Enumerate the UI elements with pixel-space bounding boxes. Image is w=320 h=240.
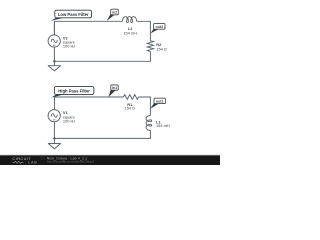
wire rail to right corner and down to L1 [139, 97, 151, 116]
node flag in2 [107, 14, 116, 21]
wire top rail circuit 2 [54, 97, 123, 110]
svg-text:http://circuitlab.com/c2em5e23: http://circuitlab.com/c2em5e23dqo1 [47, 160, 95, 164]
voltage source V1 [48, 110, 60, 122]
svg-text:out1: out1 [156, 100, 164, 104]
wire L1 bottom to rail [54, 131, 150, 139]
resistor R1 [124, 95, 139, 100]
svg-text:in2: in2 [112, 11, 117, 15]
svg-text:Low Pass Filter: Low Pass Filter [58, 12, 89, 17]
label Low Pass Filter [50, 18, 64, 21]
node flag out1 [150, 103, 158, 109]
node flag in1 [109, 89, 116, 97]
logo badge [40, 156, 45, 160]
svg-text:100 Hz: 100 Hz [63, 118, 75, 123]
svg-text:154 Ω: 154 Ω [156, 47, 167, 52]
ground circuit 2 [53, 138, 55, 143]
voltage source V2 [48, 35, 60, 47]
svg-text:in1: in1 [112, 86, 117, 90]
wire left branch circuit 2 [53, 122, 55, 139]
svg-text:High Pass Filter: High Pass Filter [58, 88, 90, 93]
node junction circuit 1 [53, 60, 55, 62]
svg-text:out2: out2 [156, 25, 164, 29]
inductor L2 [123, 17, 137, 23]
wire rail to right corner and down to R2 [137, 21, 151, 40]
wire R2 bottom to rail [54, 52, 150, 62]
wire top rail circuit 1 [54, 21, 122, 35]
node junction circuit 2 [53, 137, 55, 139]
node flag out2 [151, 29, 159, 34]
watermark bar [0, 154, 220, 157]
svg-text:154 mH: 154 mH [156, 123, 170, 128]
svg-text:154 Ω: 154 Ω [125, 105, 136, 110]
svg-text:154 mH: 154 mH [123, 30, 137, 35]
inductor L1 [146, 116, 152, 131]
logo resistor zigzag [13, 161, 24, 163]
label High Pass Filter [51, 94, 64, 97]
wire left branch circuit 1 [53, 21, 55, 61]
resistor R2 [147, 41, 153, 52]
svg-text:LAB: LAB [28, 161, 37, 165]
ground circuit 1 [53, 61, 55, 65]
svg-text:100 Hz: 100 Hz [63, 44, 75, 49]
